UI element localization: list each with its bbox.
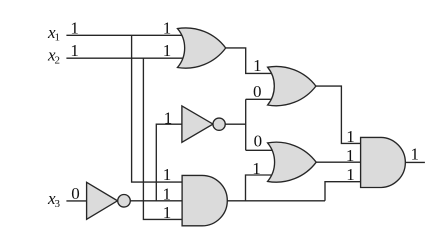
wire x1 branch vertical to AND1 top input	[132, 35, 184, 182]
wire OR3 output to AND2 middle input	[316, 161, 361, 163]
wire OR1 output to OR2 top input	[226, 48, 272, 74]
svg-text:1: 1	[346, 146, 355, 165]
wire branch of AND1 output to OR3 bottom input	[246, 175, 273, 201]
wire OR2 output to AND2 top input	[316, 86, 361, 143]
OR gate G5 (top right)	[268, 66, 316, 105]
NOT gate G2 (middle inverter)	[182, 106, 213, 142]
wire AND1 output	[227, 200, 325, 202]
svg-text:0: 0	[254, 131, 263, 150]
svg-text:1: 1	[163, 41, 172, 60]
svg-text:1: 1	[253, 56, 262, 75]
svg-text:1: 1	[252, 159, 261, 178]
AND gate G7 (3-input, output)	[361, 137, 406, 187]
svg-text:x2: x2	[47, 45, 60, 66]
svg-text:1: 1	[70, 18, 79, 37]
svg-text:1: 1	[163, 203, 172, 222]
wire NOT2 output	[225, 123, 246, 125]
wire to OR3 top input	[246, 149, 272, 151]
OR gate G1 (inputs x1, x2)	[178, 28, 226, 68]
svg-text:1: 1	[411, 145, 420, 164]
wire x3 horizontal	[66, 200, 90, 202]
wire AND2 output f	[405, 161, 425, 163]
svg-text:1: 1	[70, 41, 79, 60]
svg-text:1: 1	[163, 18, 172, 37]
wire x2 branch vertical to AND1 bottom input	[143, 58, 184, 219]
NOT gate G3 (x3 inverter)	[87, 182, 118, 219]
wire AND1 output to AND2 bottom input	[325, 182, 361, 201]
svg-text:1: 1	[163, 184, 172, 203]
svg-text:1: 1	[346, 165, 355, 184]
wire x1 horizontal	[66, 34, 183, 36]
wire branch from NOT1 output up to NOT2 input	[156, 124, 183, 201]
OR gate G6 (middle right)	[268, 142, 317, 182]
svg-text:0: 0	[253, 82, 262, 101]
NOT gate G3 bubble	[118, 195, 131, 208]
svg-text:1: 1	[346, 127, 355, 146]
NOT gate G2 bubble	[213, 118, 225, 130]
wire NOT2 output branch vertical	[245, 99, 247, 150]
svg-text:x1: x1	[47, 23, 60, 44]
svg-text:x3: x3	[47, 189, 61, 210]
svg-text:1: 1	[163, 165, 172, 184]
wire to OR2 bottom input	[246, 98, 272, 100]
AND gate G4 (3-input, bottom)	[182, 175, 227, 225]
wire NOT1 output to AND1 middle input	[130, 200, 184, 202]
wire x2 horizontal	[66, 57, 183, 59]
svg-text:1: 1	[164, 109, 173, 128]
svg-text:0: 0	[71, 184, 80, 203]
